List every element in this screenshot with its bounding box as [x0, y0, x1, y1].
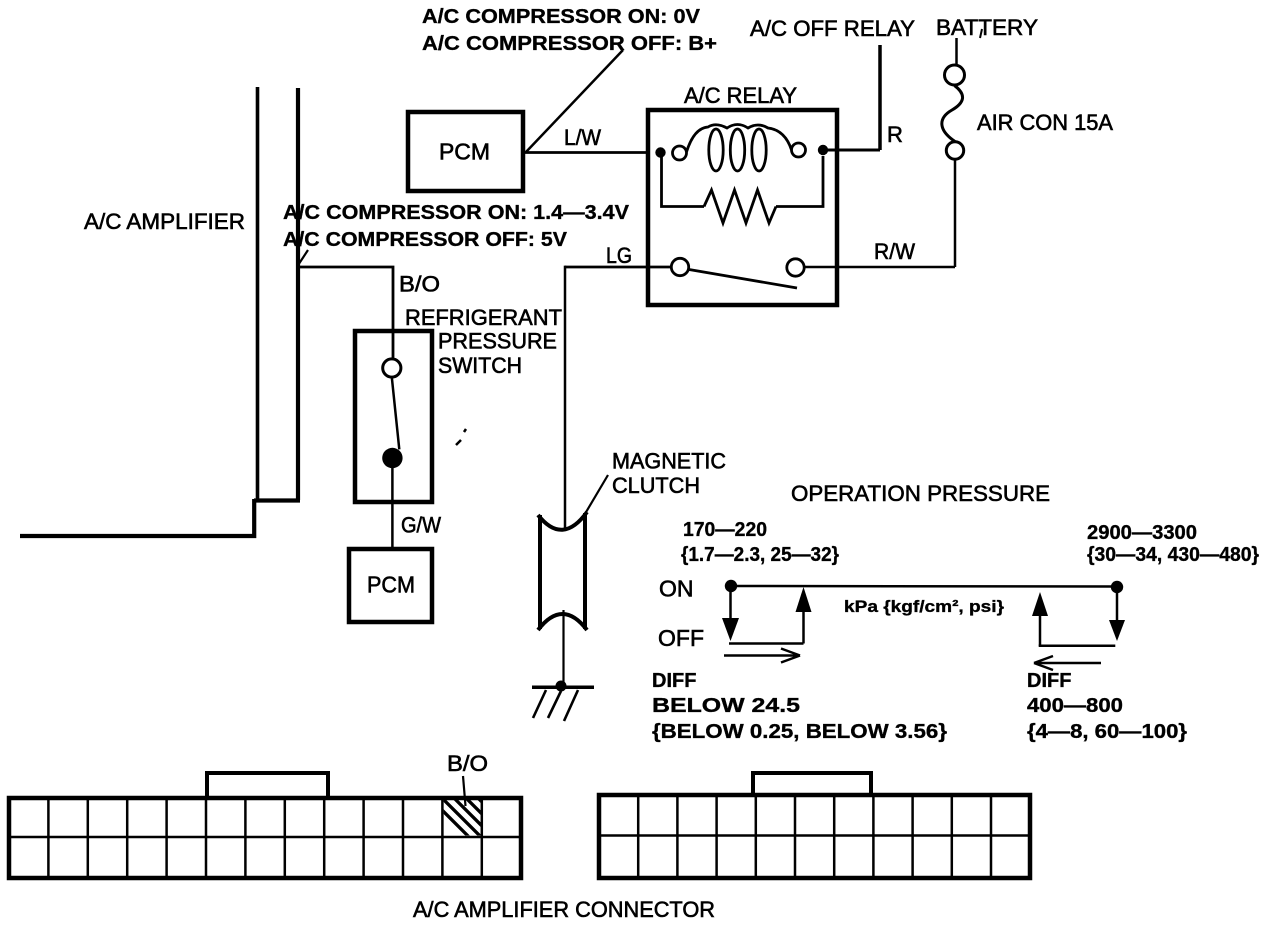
pressure switch arm	[392, 377, 400, 449]
wire R	[828, 149, 880, 152]
wire R/W	[805, 266, 956, 269]
leader line from MAGNETIC CLUTCH to clutch	[586, 475, 609, 513]
svg-text:A/C OFF RELAY: A/C OFF RELAY	[750, 16, 915, 41]
rising direction arrow	[724, 649, 800, 663]
junction dot (coil to R wire)	[818, 145, 828, 155]
pressure switch top contact	[383, 359, 401, 377]
svg-text:B/O: B/O	[399, 272, 440, 297]
scan fleck below BATTERY	[980, 29, 982, 38]
svg-text:A/C COMPRESSOR OFF: 5V: A/C COMPRESSOR OFF: 5V	[283, 229, 568, 251]
relay switch arm	[689, 270, 797, 289]
svg-text:REFRIGERANT: REFRIGERANT	[405, 305, 562, 330]
svg-text:AIR CON 15A: AIR CON 15A	[977, 110, 1113, 135]
svg-text:L/W: L/W	[564, 125, 601, 150]
falling direction arrow	[1034, 656, 1101, 670]
relay switch left contact	[671, 258, 688, 275]
svg-text:{1.7—2.3, 25—32}: {1.7—2.3, 25—32}	[681, 544, 839, 566]
refrigerant pressure switch box	[355, 331, 432, 502]
relay coil	[687, 125, 792, 172]
wire clutch to ground	[562, 610, 564, 686]
svg-text:R: R	[887, 122, 903, 147]
leader line from note to B/O node	[298, 250, 309, 266]
node dot left	[725, 580, 737, 592]
up arrow (cut-in low)	[802, 612, 805, 644]
relay coil left terminal	[673, 146, 687, 160]
PCM box (bottom)	[349, 549, 432, 622]
leader to hatched pin	[463, 776, 466, 806]
svg-text:R/W: R/W	[874, 239, 915, 264]
connector B (right) tab	[753, 773, 871, 795]
connector A (left) tab	[207, 773, 328, 798]
wire G/W	[391, 468, 394, 549]
svg-text:ON: ON	[659, 576, 694, 602]
junction dot (L/W into relay)	[655, 147, 665, 157]
svg-text:170—220: 170—220	[683, 519, 767, 541]
wire fuse to R/W	[954, 159, 957, 267]
svg-text:A/C RELAY: A/C RELAY	[684, 83, 797, 108]
connector B (right) body grid	[599, 795, 1030, 878]
ground junction dot	[556, 681, 567, 692]
A/C amplifier wire 2	[296, 88, 300, 500]
svg-text:G/W: G/W	[401, 513, 441, 538]
svg-text:PCM: PCM	[367, 572, 415, 598]
wire to A/C OFF RELAY	[878, 45, 882, 150]
magnetic clutch	[538, 512, 587, 630]
svg-text:B/O: B/O	[447, 751, 488, 776]
OFF level line left	[729, 642, 804, 645]
svg-text:MAGNETIC: MAGNETIC	[612, 449, 726, 474]
svg-text:DIFF: DIFF	[1027, 670, 1071, 692]
svg-text:DIFF: DIFF	[652, 670, 696, 692]
relay box A/C RELAY	[648, 110, 837, 305]
svg-text:BELOW 24.5: BELOW 24.5	[652, 695, 800, 717]
svg-text:OFF: OFF	[658, 625, 704, 651]
svg-text:A/C COMPRESSOR ON: 0V: A/C COMPRESSOR ON: 0V	[422, 6, 701, 28]
svg-text:OPERATION PRESSURE: OPERATION PRESSURE	[791, 481, 1050, 506]
svg-text:400—800: 400—800	[1027, 695, 1123, 717]
up arrow (cut-out high)	[1039, 614, 1042, 646]
svg-text:{4—8, 60—100}: {4—8, 60—100}	[1027, 721, 1187, 743]
relay coil right terminal	[792, 143, 806, 157]
fuse AIR CON 15A	[942, 65, 965, 159]
pressure switch bottom contact (closed)	[382, 448, 402, 468]
amplifier step wire	[20, 499, 254, 536]
svg-text:kPa {kgf/cm², psi}: kPa {kgf/cm², psi}	[844, 597, 1004, 616]
svg-text:{30—34, 430—480}: {30—34, 430—480}	[1087, 544, 1259, 566]
svg-text:PRESSURE: PRESSURE	[438, 329, 557, 354]
connector A (left) body grid	[9, 798, 521, 878]
wire L/W	[525, 151, 648, 154]
svg-text:PCM: PCM	[439, 139, 490, 165]
svg-text:LG: LG	[606, 243, 632, 268]
node dot right	[1111, 581, 1123, 593]
ON level line	[731, 585, 1117, 588]
wire B/O	[298, 267, 394, 358]
svg-text:CLUTCH: CLUTCH	[612, 473, 700, 498]
stray mark	[456, 429, 466, 445]
relay switch right contact	[787, 259, 804, 276]
amplifier joining bar	[254, 498, 300, 502]
wire LG down to clutch	[564, 266, 567, 530]
svg-text:BATTERY: BATTERY	[936, 15, 1038, 40]
svg-text:A/C AMPLIFIER: A/C AMPLIFIER	[84, 209, 245, 234]
svg-text:SWITCH: SWITCH	[438, 353, 522, 378]
svg-text:A/C COMPRESSOR OFF: B+: A/C COMPRESSOR OFF: B+	[422, 33, 717, 55]
wire LG	[565, 266, 672, 269]
svg-text:A/C COMPRESSOR ON: 1.4—3.4V: A/C COMPRESSOR ON: 1.4—3.4V	[283, 202, 630, 224]
OFF level line right	[1039, 645, 1116, 648]
A/C amplifier wire 1	[256, 87, 260, 500]
leader line from PCM output note to L/W node	[526, 50, 623, 152]
PCM box (top)	[408, 112, 523, 191]
svg-text:2900—3300: 2900—3300	[1087, 522, 1197, 544]
ground	[532, 687, 594, 721]
down arrow (cut-out low)	[729, 586, 732, 620]
down arrow (cut-in high)	[1116, 587, 1119, 624]
svg-text:A/C AMPLIFIER CONNECTOR: A/C AMPLIFIER CONNECTOR	[413, 897, 715, 922]
wire from battery	[955, 38, 958, 65]
svg-text:{BELOW 0.25, BELOW 3.56}: {BELOW 0.25, BELOW 3.56}	[652, 721, 947, 743]
relay resistor branch	[662, 156, 824, 223]
